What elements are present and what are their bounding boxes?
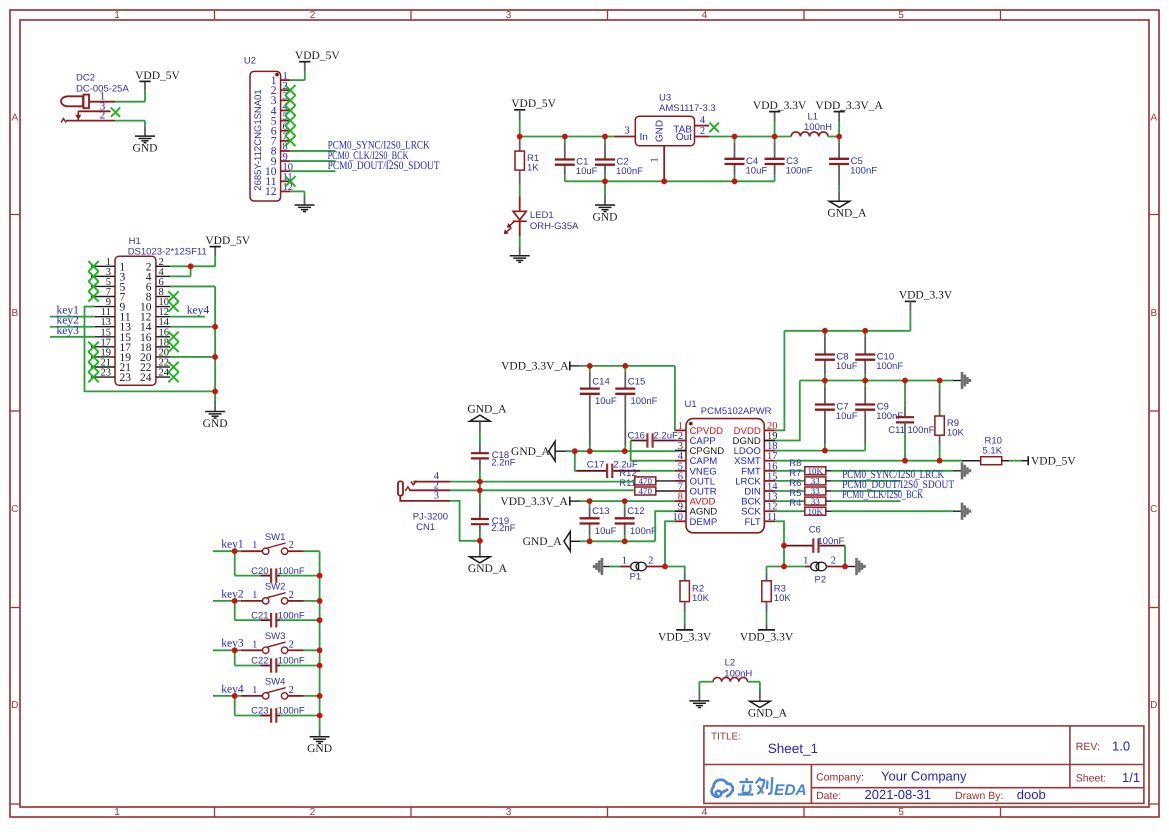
wire C6 right down to P2 pin2 xyxy=(844,546,846,567)
no-connect X U2 pin 4 xyxy=(285,105,295,115)
svg-text:2: 2 xyxy=(648,556,653,567)
svg-text:100nF: 100nF xyxy=(908,425,935,436)
U2 pin 10 xyxy=(281,170,290,172)
svg-text:1/1: 1/1 xyxy=(1122,770,1140,785)
svg-text:ORH-G35A: ORH-G35A xyxy=(530,221,579,232)
GND rail vertical xyxy=(214,286,216,401)
U2 pin 2 xyxy=(281,89,290,91)
svg-text:1: 1 xyxy=(650,157,661,162)
no-connect X U2 pin 6 xyxy=(285,126,295,136)
H1 pin 19 xyxy=(91,356,115,358)
no-connect X H1 pin 5 xyxy=(88,281,98,291)
capacitor C19 2.2nF xyxy=(479,490,481,505)
svg-text:Drawn By:: Drawn By: xyxy=(955,790,1003,802)
capacitor C10 100nF xyxy=(864,331,866,337)
SW2 pin 1 xyxy=(241,600,262,602)
no-connect X H1 pin 16 xyxy=(168,332,178,342)
svg-text:C15: C15 xyxy=(628,376,645,387)
svg-text:GND_A: GND_A xyxy=(748,708,788,720)
U2 pin 3 xyxy=(281,99,290,101)
U1 pin 5 VNEG xyxy=(675,470,686,472)
U1 pin 12 SCK xyxy=(764,510,775,512)
svg-text:100nF: 100nF xyxy=(631,396,658,407)
H1 pin 11 xyxy=(91,316,115,318)
H1 pin 20 xyxy=(156,356,170,358)
svg-text:2.2nF: 2.2nF xyxy=(491,457,515,468)
GND_A bottom rail wire xyxy=(580,540,655,542)
svg-text:1: 1 xyxy=(252,590,257,601)
SW1 pin 2 xyxy=(288,550,304,552)
U3 pin 2 Out xyxy=(695,136,710,138)
capacitor C5 100nF xyxy=(838,137,840,143)
svg-text:VDD_3.3V: VDD_3.3V xyxy=(740,631,794,643)
svg-text:SW1: SW1 xyxy=(265,532,286,543)
svg-text:100nF: 100nF xyxy=(876,361,903,372)
resistor R8 10K (FMT pin16) xyxy=(775,470,805,472)
no-connect X U2 pin 3 xyxy=(285,95,295,105)
svg-text:100nF: 100nF xyxy=(278,566,305,577)
H1 pin 16 xyxy=(156,336,170,338)
svg-text:23: 23 xyxy=(101,368,112,379)
svg-text:U3: U3 xyxy=(659,92,671,103)
svg-text:C17: C17 xyxy=(587,460,604,471)
ground arrow (DGND rail) xyxy=(961,372,964,389)
no-connect X U2 pin 5 xyxy=(285,115,295,125)
svg-text:VDD_3.3V: VDD_3.3V xyxy=(899,289,953,301)
U3 pin 3 stub xyxy=(615,136,636,138)
svg-text:GND_A: GND_A xyxy=(467,404,507,416)
svg-text:key2: key2 xyxy=(221,588,244,600)
svg-text:R4: R4 xyxy=(789,498,801,509)
CN1 pin 3 (sleeve) xyxy=(400,496,450,501)
CN1 pin 4 (tip contact) xyxy=(411,481,417,485)
H1 pin 1 xyxy=(91,265,115,267)
svg-text:2: 2 xyxy=(310,807,316,818)
svg-text:10uF: 10uF xyxy=(836,361,858,372)
svg-text:Date:: Date: xyxy=(816,790,841,802)
U1 pin 20 DVDD xyxy=(764,429,775,431)
capacitor C11 100nF xyxy=(904,381,906,407)
wire OUTR (CN1.2 to R11) xyxy=(450,489,635,491)
svg-text:33: 33 xyxy=(811,496,821,506)
svg-text:C22: C22 xyxy=(251,656,268,667)
capacitor C16 2.2uF (CAPP-CAPM) xyxy=(631,440,648,442)
wire to U1 pin 1 CPVDD xyxy=(674,366,676,431)
H1 pin 14 xyxy=(156,326,170,328)
LDOO rail wire (pin 18) xyxy=(775,450,865,452)
svg-text:CN1: CN1 xyxy=(416,522,435,533)
svg-text:EDA: EDA xyxy=(774,782,807,799)
U1 pin 1 CPVDD xyxy=(675,429,686,431)
U2 pin 11 xyxy=(281,180,290,182)
power flag VDD_5V (DC2) xyxy=(139,80,150,82)
svg-text:24: 24 xyxy=(140,372,152,384)
wire C17 right to VNEG pin5 xyxy=(640,470,675,472)
resistor R5 33 (BCK pin13) net PCM0_CLK/I2S0_BCK xyxy=(775,500,805,502)
svg-text:key3: key3 xyxy=(221,638,244,650)
no-connect X H1 pin 18 xyxy=(168,342,178,352)
DC2 pin 2 xyxy=(61,119,66,123)
U1 pin 10 DEMP xyxy=(675,520,686,522)
svg-text:GND_A: GND_A xyxy=(468,563,508,575)
capacitor C18 2.2nF xyxy=(479,445,481,454)
LED LED1 ORH-G35A xyxy=(519,197,521,212)
U2 pin 4 xyxy=(281,109,290,111)
U1 pin 15 LRCK xyxy=(764,480,775,482)
svg-text:24: 24 xyxy=(159,368,170,379)
wire H1.20 xyxy=(170,356,215,358)
capacitor C6 100nF xyxy=(784,545,813,547)
svg-text:L1: L1 xyxy=(808,112,819,123)
svg-text:100nF: 100nF xyxy=(850,165,877,176)
svg-text:1: 1 xyxy=(252,685,257,696)
capacitor C8 10uF xyxy=(824,331,826,337)
svg-text:1: 1 xyxy=(622,556,627,567)
svg-text:PCM5102APWR: PCM5102APWR xyxy=(701,406,772,417)
U2 pin 12 xyxy=(281,190,290,192)
net key3 wire H1.15 xyxy=(50,336,95,338)
wire DEMP pin10 down to P1 xyxy=(665,521,675,566)
svg-text:U1: U1 xyxy=(685,399,697,410)
H1 pin 24 xyxy=(156,376,170,378)
svg-text:D: D xyxy=(11,700,18,711)
P1 pin1 to gnd arrow xyxy=(621,566,631,568)
capacitor C13 10uF xyxy=(589,501,591,507)
wire to U1 pin 20 DVDD xyxy=(775,331,784,431)
svg-text:GND: GND xyxy=(655,120,666,142)
svg-text:10K: 10K xyxy=(774,593,792,604)
svg-text:DEMP: DEMP xyxy=(690,517,718,528)
no-connect X H1 pin 8 xyxy=(168,291,178,301)
svg-text:REV:: REV: xyxy=(1076,741,1100,753)
AVDD rail wire xyxy=(580,500,675,502)
title block xyxy=(704,726,1144,804)
wire H1.2 to VDD_5V xyxy=(170,265,215,267)
svg-text:PJ-3200: PJ-3200 xyxy=(413,511,448,522)
U3 pin 4 TAB no-connect xyxy=(695,125,710,127)
XSMT wire (pin 17) to R10 xyxy=(775,460,962,462)
svg-text:B: B xyxy=(11,308,18,319)
U1 pin 9 AGND xyxy=(675,510,686,512)
U3 pin 1 (GND) xyxy=(663,146,665,182)
U1 pin 13 BCK xyxy=(764,500,775,502)
svg-text:Your Company: Your Company xyxy=(881,768,967,783)
P1 pin2 stub xyxy=(646,566,665,568)
svg-text:3: 3 xyxy=(506,10,512,21)
svg-text:2685Y-112CNG1SNA01: 2685Y-112CNG1SNA01 xyxy=(253,89,264,190)
svg-text:Sheet:: Sheet: xyxy=(1076,773,1106,785)
U1 pin 7 OUTR xyxy=(675,490,686,492)
no-connect X H1 pin 17 xyxy=(88,342,98,352)
svg-text:VDD_3.3V: VDD_3.3V xyxy=(658,631,712,643)
svg-text:Company:: Company: xyxy=(816,771,864,783)
svg-text:3: 3 xyxy=(506,807,512,818)
no-connect X H1 pin 1 xyxy=(88,261,98,271)
ground arrow (R4) xyxy=(961,503,964,520)
no-connect X U2 pin 11 xyxy=(285,176,295,186)
svg-text:VDD_5V: VDD_5V xyxy=(1031,455,1076,467)
junction C18 on OUTL wire xyxy=(479,482,481,491)
svg-text:2: 2 xyxy=(100,110,106,122)
svg-text:10uF: 10uF xyxy=(576,166,598,177)
no-connect X U2 pin 2 xyxy=(285,85,295,95)
no-connect X H1 pin 7 xyxy=(88,291,98,301)
svg-text:P1: P1 xyxy=(630,572,642,583)
H1 pin 18 xyxy=(156,346,170,348)
svg-text:100nF: 100nF xyxy=(817,536,844,547)
U2 pin 8 xyxy=(281,150,290,152)
H1 pin 15 xyxy=(91,336,115,338)
right gnd rail (switches) xyxy=(319,551,321,730)
wire input rail xyxy=(520,136,615,138)
power flag VDD_3.3V_A (L1 out) xyxy=(838,122,840,137)
svg-text:1.0: 1.0 xyxy=(1112,739,1130,754)
svg-text:C20: C20 xyxy=(251,566,268,577)
SW1 pin 1 xyxy=(241,550,262,552)
wire U2.8 net PCM0_SYNC/I2S0_LRCK xyxy=(290,150,336,152)
U1 pin 16 FMT xyxy=(764,470,775,472)
H1 pin 22 xyxy=(156,366,170,368)
svg-text:470: 470 xyxy=(639,476,653,486)
bottom gnd rail (U3) xyxy=(565,180,775,182)
svg-text:10K: 10K xyxy=(692,593,710,604)
svg-text:VDD_5V: VDD_5V xyxy=(135,70,180,82)
svg-text:C: C xyxy=(11,504,18,515)
svg-text:H1: H1 xyxy=(129,236,141,247)
svg-text:10K: 10K xyxy=(808,466,824,476)
svg-text:VDD_3.3V_A: VDD_3.3V_A xyxy=(500,496,568,508)
svg-text:C: C xyxy=(1150,504,1157,515)
SW2 pin 2 xyxy=(288,600,304,602)
capacitor C17 2.2uF (VNEG) xyxy=(576,470,607,472)
wire H1.14 xyxy=(170,326,215,328)
ground GND (H1) xyxy=(214,402,216,412)
svg-text:VDD_3.3V: VDD_3.3V xyxy=(753,100,807,112)
net key1 wire H1.11 xyxy=(50,316,95,318)
capacitor C3 100nF xyxy=(774,137,776,143)
U1 pin 19 DGND xyxy=(764,440,775,442)
svg-text:4: 4 xyxy=(702,10,708,21)
svg-text:U2: U2 xyxy=(244,56,256,67)
capacitor C21 100nF xyxy=(234,601,236,620)
U2 pin 9 xyxy=(281,160,290,162)
svg-text:In: In xyxy=(640,132,648,143)
H1 pin 5 xyxy=(91,285,115,287)
U1 pin 2 CAPP xyxy=(675,440,686,442)
H1 pin 23 xyxy=(91,376,115,378)
svg-text:DC2: DC2 xyxy=(76,73,95,84)
net key4 wire H1.12 xyxy=(170,316,205,318)
ground GND_A (below C19) xyxy=(479,541,481,557)
svg-text:key1: key1 xyxy=(221,539,244,551)
ground GND (switch rail) xyxy=(319,730,321,737)
wire C16 to CAPM pin4 xyxy=(631,441,675,461)
svg-text:3: 3 xyxy=(434,491,439,502)
svg-text:10K: 10K xyxy=(808,506,824,516)
H1 pin 17 xyxy=(91,346,115,348)
svg-text:12: 12 xyxy=(265,186,277,198)
jumper P2 xyxy=(784,566,805,568)
svg-text:LED1: LED1 xyxy=(530,210,554,221)
capacitor C14 10uF xyxy=(589,366,591,372)
ground arrow (R8) xyxy=(961,462,964,479)
resistor R3 10K xyxy=(767,566,785,568)
resistor R9 10K xyxy=(939,381,941,391)
capacitor C4 10uF xyxy=(734,137,736,143)
svg-text:VDD_3.3V_A: VDD_3.3V_A xyxy=(815,100,883,112)
wire GND_A rail to AGND pin9 xyxy=(655,511,675,541)
H1 pin 4 xyxy=(156,275,170,277)
wire U2.12 to GND xyxy=(290,190,305,192)
svg-text:10uF: 10uF xyxy=(595,526,617,537)
ground GND (DC2) xyxy=(135,135,155,137)
wire CN1.3 to GND_A xyxy=(450,501,480,541)
svg-text:Out: Out xyxy=(676,132,692,143)
H1 pin 3 xyxy=(91,275,115,277)
top VDD_3.3V_A rail wire xyxy=(579,365,675,367)
no-connect X H1 pin 24 xyxy=(168,372,178,382)
svg-text:2: 2 xyxy=(289,685,294,696)
H1 pin 2 xyxy=(156,265,170,267)
SW3 pin 1 xyxy=(241,649,262,651)
H1 pin 7 xyxy=(91,296,115,298)
wire U2.10 net PCM0_DOUT/I2S0_SDOUT xyxy=(290,170,336,172)
svg-text:R11: R11 xyxy=(619,478,636,489)
DVDD rail wire xyxy=(784,330,910,332)
power flag VDD_3.3V (U3 out) xyxy=(774,122,776,137)
svg-text:5.1K: 5.1K xyxy=(983,446,1003,457)
svg-text:100nF: 100nF xyxy=(786,165,813,176)
svg-text:100nF: 100nF xyxy=(278,706,305,717)
ground (LED1) xyxy=(510,255,530,257)
capacitor C23 100nF xyxy=(234,696,236,716)
DC2 pin 3 (no connect) xyxy=(78,110,110,112)
svg-text:33: 33 xyxy=(811,476,821,486)
output rail xyxy=(709,136,791,138)
resistor R4 10K (SCK pin12) xyxy=(775,510,805,512)
svg-text:2: 2 xyxy=(831,556,836,567)
wire FLT pin11 down to P2 xyxy=(775,521,784,566)
svg-text:FLT: FLT xyxy=(744,517,760,528)
power flag VDD_3.3V (R2) down xyxy=(676,629,693,631)
U1 pin 6 OUTL xyxy=(675,480,686,482)
svg-text:C12: C12 xyxy=(627,506,644,517)
svg-text:2: 2 xyxy=(289,639,294,650)
DGND rail wire xyxy=(800,380,953,382)
svg-text:GND_A: GND_A xyxy=(511,446,551,458)
svg-text:3: 3 xyxy=(624,125,629,136)
H1 pin 9 xyxy=(91,306,115,308)
svg-text:C13: C13 xyxy=(592,506,609,517)
svg-text:doob: doob xyxy=(1017,787,1046,802)
DC2 pin 1 xyxy=(89,101,115,103)
U1 pin 17 XSMT xyxy=(764,460,775,462)
svg-text:2021-08-31: 2021-08-31 xyxy=(865,787,932,802)
U2 pin 6 xyxy=(281,130,290,132)
no-connect X U2 pin 7 xyxy=(285,136,295,146)
svg-text:C14: C14 xyxy=(592,376,609,387)
svg-text:SW2: SW2 xyxy=(265,582,286,593)
svg-text:C21: C21 xyxy=(251,610,268,621)
wire DC2.2 to GND xyxy=(115,120,145,122)
U1 pin 18 LDOO xyxy=(764,450,775,452)
resistor R2 10K xyxy=(665,567,685,574)
SW4 pin 1 xyxy=(241,695,262,697)
SW3 pin 2 xyxy=(288,649,304,651)
svg-text:GND_A: GND_A xyxy=(827,208,867,220)
H1 pin 6 xyxy=(156,285,170,287)
no-connect X H1 pin 22 xyxy=(168,362,178,372)
U2 pin 7 xyxy=(281,140,290,142)
svg-text:GND_A: GND_A xyxy=(523,536,563,548)
svg-text:23: 23 xyxy=(120,372,132,384)
svg-text:VDD_5V: VDD_5V xyxy=(295,50,340,62)
resistor R12 470 (OUTL) xyxy=(635,477,656,485)
power flag VDD_3.3V (R3) down xyxy=(758,629,775,631)
svg-text:10uF: 10uF xyxy=(595,396,617,407)
svg-text:1: 1 xyxy=(252,639,257,650)
svg-text:100nF: 100nF xyxy=(630,526,657,537)
svg-text:GND: GND xyxy=(307,743,332,755)
svg-text:100nF: 100nF xyxy=(278,610,305,621)
H1 pin 21 xyxy=(91,366,115,368)
GND_A mid rail wire xyxy=(566,450,675,452)
capacitor C2 100nF xyxy=(604,137,606,143)
svg-text:100nF: 100nF xyxy=(616,166,643,177)
svg-text:key4: key4 xyxy=(187,305,210,317)
capacitor C20 100nF xyxy=(234,551,236,575)
svg-text:2: 2 xyxy=(289,540,294,551)
resistor R6 33 (DIN pin14) net PCM0_DOUT/I2S0_SDOUT xyxy=(775,490,805,492)
U2 pin 5 xyxy=(281,120,290,122)
resistor R7 33 (LRCK pin15) net PCM0_SYNC/I2S0_LRCK xyxy=(775,480,805,482)
power flag VDD_5V (U2) xyxy=(299,61,310,63)
svg-text:key4: key4 xyxy=(221,683,244,695)
svg-text:C16: C16 xyxy=(628,431,645,442)
svg-text:P2: P2 xyxy=(815,575,827,586)
wire U2.1 to VDD_5V xyxy=(290,79,305,81)
svg-text:10uF: 10uF xyxy=(836,411,858,422)
svg-text:C6: C6 xyxy=(809,524,821,535)
svg-text:Sheet_1: Sheet_1 xyxy=(768,741,818,756)
CN1 pin 2 (ring contact) xyxy=(405,487,410,491)
svg-text:2.2nF: 2.2nF xyxy=(491,523,515,534)
net flag VDD_5V (R10) xyxy=(1002,460,1009,462)
no-connect X H1 pin 23 xyxy=(88,372,98,382)
svg-text:L2: L2 xyxy=(725,658,736,669)
no-connect X H1 pin 21 xyxy=(88,362,98,372)
ground GND_A (C5) xyxy=(838,191,840,201)
ground GND (C2) xyxy=(604,181,606,195)
resistor R1 1K xyxy=(519,137,521,152)
svg-text:10uF: 10uF xyxy=(746,165,768,176)
svg-text:2.2uF: 2.2uF xyxy=(654,431,678,442)
resistor R10 5.1K xyxy=(981,457,1002,465)
svg-text:100nH: 100nH xyxy=(804,122,832,133)
svg-text:key3: key3 xyxy=(57,325,80,337)
svg-text:A: A xyxy=(11,113,18,124)
P2 pin2 stub xyxy=(826,566,845,568)
LED1 to ground xyxy=(519,221,521,236)
junction dots xyxy=(188,263,194,269)
L2 left to GND xyxy=(698,682,700,691)
svg-text:2: 2 xyxy=(700,126,705,137)
jumper P1 xyxy=(631,562,641,571)
svg-text:D: D xyxy=(1150,700,1157,711)
wire U2.9 net PCM0_CLK/I2S0_BCK xyxy=(290,160,336,162)
svg-text:4: 4 xyxy=(700,115,706,126)
svg-text:4: 4 xyxy=(702,807,708,818)
